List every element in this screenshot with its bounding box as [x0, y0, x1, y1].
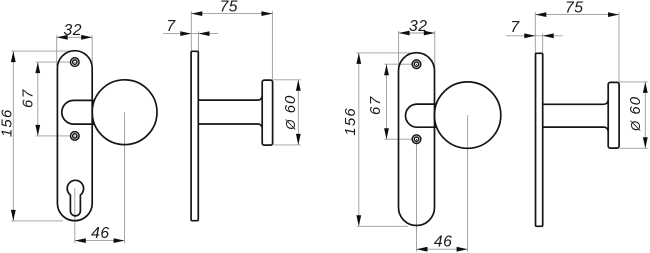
side neck top line (fig1): [199, 96, 263, 100]
extension lines dim 32 (fig1): [57, 35, 92, 66]
dimension 7 (fig1): [163, 18, 218, 36]
screw bottom (fig1): [71, 132, 80, 141]
euro cylinder keyhole (fig1): [67, 180, 83, 216]
extension lines dim 75 (fig1): [191, 11, 272, 80]
extension lines dim 156 (fig1): [11, 51, 70, 221]
dimension 46 (fig1): [75, 225, 125, 243]
front plate (fig2): [399, 53, 435, 226]
svg-text:46: 46: [91, 225, 109, 242]
dimension 75 (fig2): [535, 0, 619, 17]
extension lines dim 67 (fig1): [36, 62, 71, 136]
extension lines dim Ø60 (fig2): [620, 82, 648, 148]
svg-text:75: 75: [565, 0, 583, 17]
dimension 75 (fig1): [191, 0, 272, 16]
screw bottom (fig2): [412, 135, 421, 144]
extension lines dim 46 (fig1): [75, 112, 125, 243]
svg-text:46: 46: [434, 234, 452, 251]
svg-text:67: 67: [19, 88, 36, 108]
extension lines dim Ø60 (fig1): [273, 80, 301, 145]
extension lines dim 75 (fig2): [535, 12, 619, 82]
screw top (fig2): [412, 60, 421, 69]
dimension 32 (fig2): [399, 18, 435, 36]
dimension 156 (fig2): [342, 53, 361, 226]
knob face side view (fig2): [608, 82, 619, 148]
side neck bottom line (fig1): [199, 124, 263, 128]
side plate (fig1): [191, 51, 198, 220]
knob front (fig2): [434, 82, 500, 148]
screw top (fig1): [71, 58, 80, 67]
knob face side view (fig1): [262, 80, 272, 145]
dimension 7 (fig2): [506, 19, 562, 38]
svg-text:67: 67: [367, 95, 384, 115]
extension lines dim 67 (fig2): [384, 64, 412, 139]
side neck top line (fig2): [543, 100, 608, 104]
extension lines dim 32 (fig2): [399, 31, 435, 68]
svg-text:7: 7: [166, 18, 176, 35]
side plate (fig2): [536, 53, 543, 226]
svg-text:7: 7: [510, 19, 520, 36]
svg-text:32: 32: [409, 18, 427, 35]
front plate (fig1): [57, 51, 92, 221]
dimension Ø60 (fig1): [282, 80, 301, 145]
svg-text:32: 32: [63, 22, 81, 39]
dimension 46 (fig2): [417, 234, 468, 252]
knob neck front (fig2): [405, 104, 436, 127]
extension line dim 7 (fig1): [198, 31, 200, 51]
knob front (fig1): [92, 80, 157, 145]
knob neck front (fig1): [62, 100, 95, 124]
dimension 67 (fig2): [367, 64, 389, 139]
svg-text:156: 156: [342, 107, 359, 136]
svg-text:156: 156: [0, 108, 15, 137]
dimension 32 (fig1): [57, 22, 92, 40]
dimension 67 (fig1): [19, 62, 40, 136]
dimension 156 (fig1): [0, 51, 16, 221]
svg-text:Ø 60: Ø 60: [627, 96, 644, 132]
extension line dim 7 (fig2): [542, 34, 544, 54]
extension lines dim 156 (fig2): [357, 53, 411, 226]
dimension Ø60 (fig2): [627, 82, 648, 148]
svg-text:Ø 60: Ø 60: [282, 95, 299, 131]
side neck bottom line (fig2): [543, 127, 608, 131]
svg-text:75: 75: [220, 0, 238, 15]
extension lines dim 46 (fig2): [417, 115, 468, 252]
